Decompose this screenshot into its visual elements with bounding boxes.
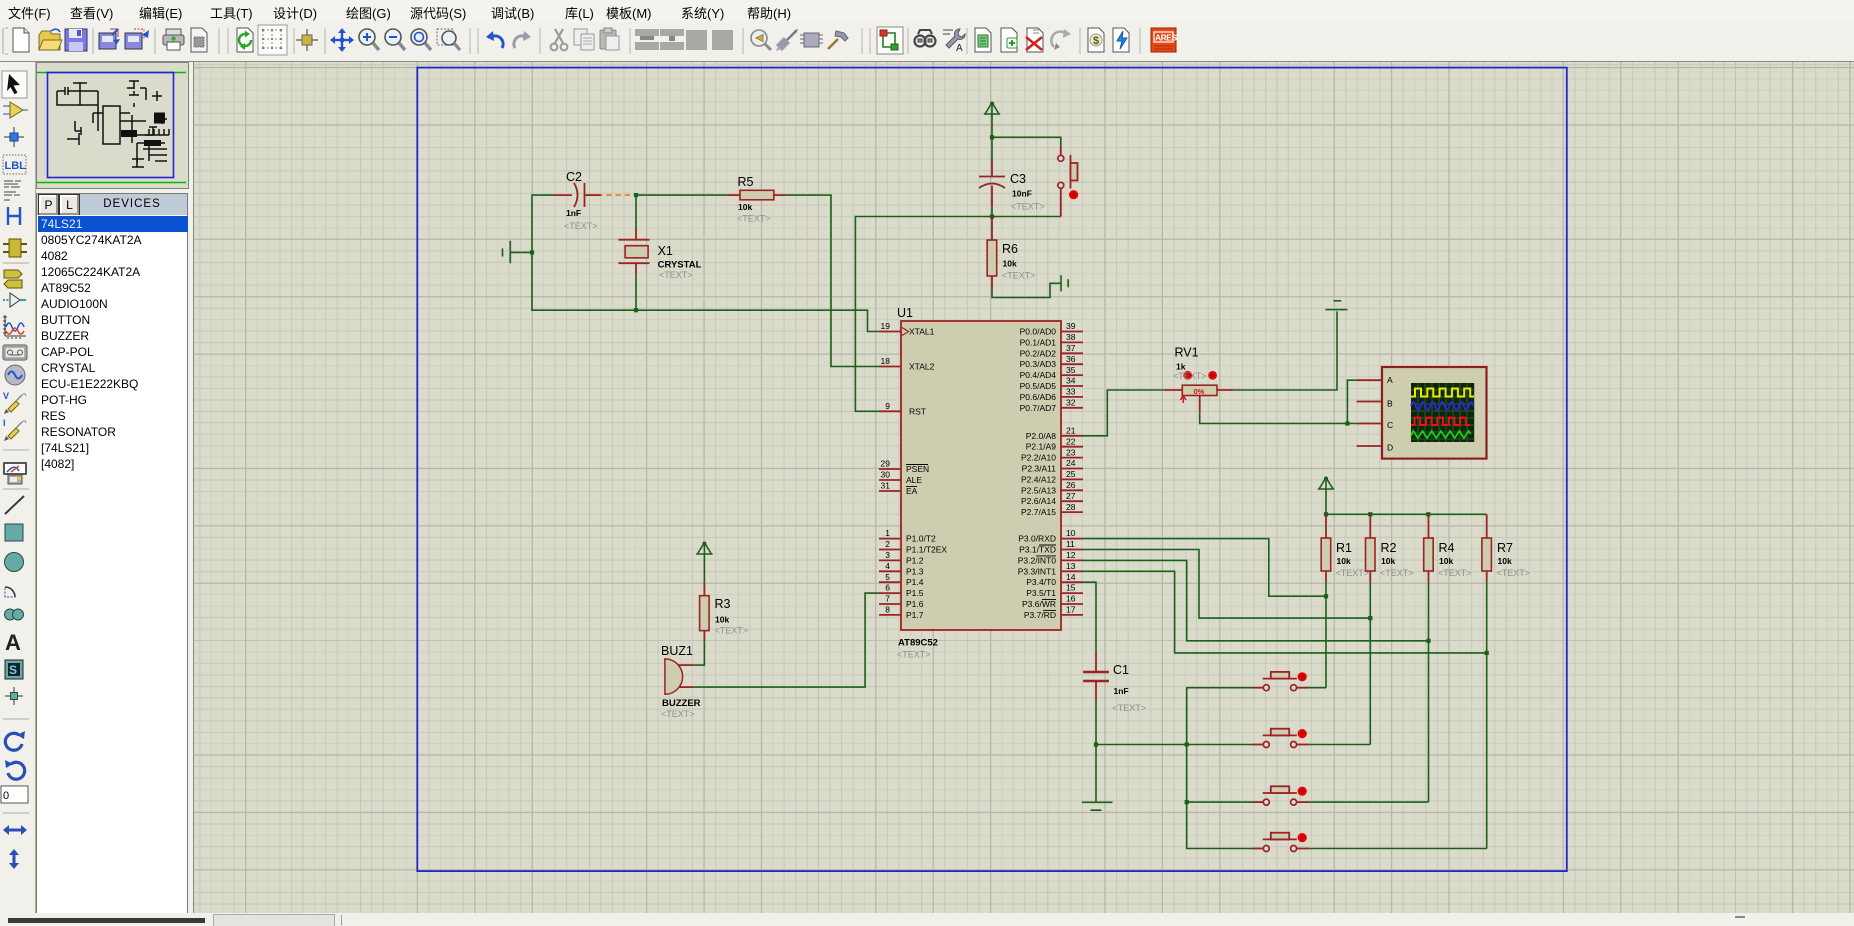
wire button2 right (1309, 744, 1370, 746)
svg-text:<TEXT>: <TEXT> (1002, 271, 1036, 281)
wire R4 bottom column (1428, 582, 1430, 802)
wire P3.2 to R4/button3 (1083, 560, 1429, 640)
resistor R7 (1482, 514, 1530, 582)
icon: new document (13, 28, 29, 52)
svg-text:<TEXT>: <TEXT> (659, 270, 693, 280)
left tool strip (0, 61, 36, 913)
icon: cut (551, 29, 568, 50)
capacitor C3 (979, 159, 1045, 212)
svg-text:XTAL2: XTAL2 (909, 362, 935, 372)
cursor arrow icon (7, 74, 20, 94)
svg-text:<TEXT>: <TEXT> (1011, 202, 1045, 212)
svg-text:AT89C52: AT89C52 (898, 638, 938, 649)
2D circle icon (5, 553, 24, 572)
svg-text:R7: R7 (1497, 541, 1513, 555)
wire C3 bottom to rail (991, 206, 993, 217)
icon: mark output area (191, 28, 207, 52)
ground (C1) (1082, 802, 1113, 810)
svg-text:P3.0/RXD: P3.0/RXD (1018, 534, 1056, 544)
svg-text:R5: R5 (738, 175, 754, 189)
P button (38, 194, 59, 216)
icon: paste (600, 28, 619, 50)
power symbol (ladder) (1318, 477, 1334, 490)
icon: zoom in (359, 29, 379, 50)
pins P1.0-P1.7 (1-8) (879, 539, 901, 615)
microcontroller U1 AT89C52 (879, 306, 1083, 660)
power symbol (R3) (696, 542, 712, 555)
svg-text:35: 35 (1066, 365, 1076, 375)
pin ALE 30 (879, 479, 901, 481)
icon: pan (330, 28, 354, 52)
icon: zoom all (411, 29, 431, 50)
svg-text:P1.0/T2: P1.0/T2 (906, 534, 936, 544)
ground (crystal section) (503, 241, 533, 263)
svg-text:S: S (9, 663, 17, 677)
icon: block rotate (686, 30, 707, 50)
svg-text:R4: R4 (1439, 541, 1455, 555)
svg-text:C1: C1 (1113, 663, 1129, 677)
capacitor C2 (554, 170, 602, 231)
icon: new sheet (1001, 28, 1017, 52)
svg-text:R3: R3 (715, 597, 731, 611)
svg-text:BUZ1: BUZ1 (661, 644, 693, 658)
svg-text:<TEXT>: <TEXT> (1113, 703, 1147, 713)
overview window (36, 62, 189, 189)
pin EA 31 (879, 490, 901, 492)
svg-text:A: A (956, 43, 963, 54)
svg-text:I: I (3, 418, 6, 428)
push button 4 (1253, 833, 1309, 852)
icon: property assign (943, 29, 965, 54)
svg-text:6: 6 (885, 583, 890, 593)
overlines TXD INT0 WR RD (1036, 545, 1056, 610)
bus mode icon (8, 207, 20, 225)
svg-text:P3.5/T1: P3.5/T1 (1026, 588, 1056, 598)
icon: export (125, 29, 149, 49)
svg-text:37: 37 (1066, 343, 1076, 353)
svg-text:15: 15 (1066, 583, 1076, 593)
icon: ARES (1151, 28, 1177, 52)
2D box icon (5, 524, 23, 541)
icon: block move (660, 29, 684, 50)
svg-text:17: 17 (1066, 605, 1076, 615)
junction dot mode icon (4, 127, 24, 147)
right pin names (1018, 327, 1057, 620)
svg-text:13: 13 (1066, 561, 1076, 571)
waveform channel A (yellow square) (1411, 389, 1474, 397)
oscilloscope (1357, 367, 1487, 459)
svg-text:<TEXT>: <TEXT> (1380, 568, 1414, 578)
svg-text:27: 27 (1066, 491, 1076, 501)
svg-text:<TEXT>: <TEXT> (1438, 568, 1472, 578)
svg-text:<TEXT>: <TEXT> (715, 626, 749, 636)
node junctions ladder rail (1324, 512, 1328, 516)
text script mode icon (4, 181, 21, 200)
icon: block delete (712, 30, 733, 50)
svg-text:P3.2/INT0: P3.2/INT0 (1018, 555, 1057, 565)
svg-text:16: 16 (1066, 594, 1076, 604)
icon: design explorer (975, 28, 991, 52)
svg-text:R1: R1 (1336, 541, 1352, 555)
svg-text:21: 21 (1066, 426, 1076, 436)
svg-text:29: 29 (881, 459, 891, 469)
wire R3 to buzzer pin1 (694, 642, 705, 665)
icon: goto pin (776, 29, 798, 51)
component mode icon (3, 102, 28, 118)
wire button4 right (1309, 848, 1487, 850)
svg-text:P0.1/AD1: P0.1/AD1 (1020, 337, 1057, 347)
node junction C3/R6 rail (990, 214, 994, 218)
svg-text:P3.1/TXD: P3.1/TXD (1019, 545, 1056, 555)
wire R2 bottom column (1369, 582, 1371, 745)
svg-text:7: 7 (885, 594, 890, 604)
wire RV1 wiper to scope (1200, 413, 1357, 424)
resistor R4 (1424, 514, 1472, 582)
wire button3 right (1309, 801, 1429, 803)
icon: origin (296, 29, 318, 51)
icon: import (99, 29, 120, 49)
wire button left column (1187, 688, 1253, 849)
svg-text:14: 14 (1066, 572, 1076, 582)
svg-text:23: 23 (1066, 448, 1076, 458)
svg-text:10k: 10k (1337, 556, 1351, 566)
schematic canvas (0, 61, 1854, 62)
icon: zoom out (385, 29, 405, 50)
wire R5 to XTAL2 (786, 195, 879, 366)
wire C1 to ground (1095, 700, 1097, 802)
svg-text:39: 39 (1066, 321, 1076, 331)
svg-text:30: 30 (881, 470, 891, 480)
pins P3.0-P3.7 (10-17) (1061, 539, 1083, 615)
graph mode icon (3, 315, 26, 338)
svg-text:4: 4 (885, 561, 890, 571)
svg-text:PSEN: PSEN (906, 464, 929, 474)
icon: BOM (1088, 28, 1104, 52)
DEVICES title (79, 194, 185, 214)
svg-text:32: 32 (1066, 398, 1076, 408)
svg-text:P0.7/AD7: P0.7/AD7 (1020, 403, 1057, 413)
svg-text:P1.6: P1.6 (906, 599, 924, 609)
2D line icon (5, 496, 24, 514)
waveform channel D (green zigzag) (1411, 431, 1471, 438)
icon: block copy (635, 29, 659, 50)
resistor R5 (727, 175, 786, 224)
svg-text:P0.2/AD2: P0.2/AD2 (1020, 348, 1057, 358)
svg-text:P2.1/A9: P2.1/A9 (1026, 442, 1057, 452)
pin RST 9 (879, 410, 901, 412)
icon: chip (800, 33, 823, 47)
svg-text:XTAL1: XTAL1 (909, 327, 935, 337)
svg-text:P0.4/AD4: P0.4/AD4 (1020, 370, 1057, 380)
svg-text:RST: RST (909, 407, 926, 417)
crystal X1 (618, 228, 701, 280)
svg-text:V: V (3, 391, 9, 401)
voltage probe mode icon (3, 391, 26, 414)
wire RST rail (855, 217, 1060, 412)
svg-text:28: 28 (1066, 502, 1076, 512)
devices header (36, 193, 188, 217)
svg-text:12: 12 (1066, 550, 1076, 560)
wire power to C3 (991, 103, 993, 160)
svg-text:A: A (1387, 375, 1393, 385)
ground (R6) (1061, 275, 1068, 291)
svg-text:10k: 10k (1381, 556, 1395, 566)
2D symbol icon (5, 660, 23, 679)
svg-text:2: 2 (885, 539, 890, 549)
node junction X1 bottom rail (634, 308, 638, 312)
power symbol (C3 rail) (984, 102, 1000, 115)
overlines PSEN EA (906, 465, 928, 487)
node junction R1/P3.0 (1324, 594, 1328, 598)
icon: goto sheet (1051, 29, 1071, 50)
svg-text:0: 0 (3, 790, 9, 802)
wire X1 bottom (635, 274, 637, 310)
svg-text:ARES: ARES (1155, 33, 1177, 43)
node junction C2/X1/R5 (634, 193, 638, 197)
icon: grid (pressed) (258, 25, 287, 55)
svg-text:25: 25 (1066, 469, 1076, 479)
svg-text:A: A (5, 630, 21, 655)
svg-text:C: C (1387, 420, 1393, 430)
svg-text:P2.6/A14: P2.6/A14 (1021, 496, 1056, 506)
svg-text:33: 33 (1066, 387, 1076, 397)
svg-text:26: 26 (1066, 480, 1076, 490)
resistor R1 (1321, 514, 1369, 582)
left pin names (906, 327, 947, 620)
svg-text:P2.5/A13: P2.5/A13 (1021, 485, 1056, 495)
push button 3 (1253, 786, 1309, 805)
svg-text:22: 22 (1066, 437, 1076, 447)
svg-text:P2.2/A10: P2.2/A10 (1021, 453, 1056, 463)
svg-text:BUZZER: BUZZER (662, 698, 701, 709)
svg-text:P1.4: P1.4 (906, 577, 924, 587)
svg-text:RV1: RV1 (1175, 346, 1199, 360)
wire RV1 right to inverted ground (1234, 311, 1337, 390)
wire button1 right (1309, 687, 1326, 689)
rotate clockwise icon (5, 731, 25, 750)
svg-text:C2: C2 (566, 170, 582, 184)
svg-text:10k: 10k (738, 202, 752, 212)
svg-text:P0.5/AD5: P0.5/AD5 (1020, 381, 1057, 391)
status bar (0, 913, 1854, 925)
2D marker icon (5, 687, 23, 705)
node junction left column/button3 (1185, 800, 1189, 804)
icon: goto zoom (751, 30, 771, 50)
svg-text:<TEXT>: <TEXT> (1173, 371, 1207, 381)
device list (36, 215, 188, 914)
svg-text:10k: 10k (1003, 259, 1017, 269)
svg-text:P0.0/AD0: P0.0/AD0 (1020, 327, 1057, 337)
icon: ERC (1113, 28, 1129, 52)
device pin mode icon (3, 293, 26, 307)
svg-text:P1.7: P1.7 (906, 610, 924, 620)
svg-text:P3.3/INT1: P3.3/INT1 (1018, 566, 1057, 576)
rotation angle box (1, 786, 28, 803)
icon: remove sheet (1026, 28, 1043, 52)
svg-text:P1.5: P1.5 (906, 588, 924, 598)
node junction R7/P3.3 (1485, 651, 1489, 655)
svg-text:R2: R2 (1381, 541, 1397, 555)
wire R7 bottom column (1486, 582, 1488, 849)
wire C2 net (532, 195, 879, 331)
waveform channel B (blue sine) (1411, 402, 1473, 410)
pins P2.0-P2.7 (21-28) (1061, 436, 1083, 512)
node junction scope A/C branch (1345, 421, 1349, 425)
svg-text:P1.1/T2EX: P1.1/T2EX (906, 545, 947, 555)
node junction R4/P3.2 (1426, 639, 1430, 643)
node junction R2/P3.1 (1368, 616, 1372, 620)
svg-text:19: 19 (881, 321, 891, 331)
wire R1 bottom column (1325, 582, 1327, 688)
node junction left column/ground rail (1185, 742, 1189, 746)
svg-text:10k: 10k (1439, 556, 1453, 566)
wire C2 to junction (dashed highlight) (588, 194, 633, 196)
svg-text:31: 31 (881, 481, 891, 491)
svg-text:<TEXT>: <TEXT> (661, 709, 695, 719)
wire P3.3 to R7/button4 (1083, 571, 1487, 653)
wire R6 to ground (992, 283, 1061, 297)
icon: zoom area (437, 29, 460, 50)
icon: redo (514, 31, 531, 48)
push button reset switch (1058, 145, 1078, 216)
right pin numbers (1066, 321, 1076, 615)
capacitor C1 (1083, 651, 1146, 713)
resistor R6 (987, 217, 1035, 291)
potentiometer RV1 (1165, 346, 1234, 413)
overview mini circuit (57, 81, 169, 167)
icon: open folder (39, 29, 62, 50)
wire button3 left (1187, 801, 1253, 803)
svg-text:1k: 1k (1176, 362, 1186, 372)
icon: print (163, 29, 184, 50)
svg-text:U1: U1 (897, 306, 913, 320)
mirror vertical icon (9, 849, 19, 869)
svg-text:EA: EA (906, 486, 918, 496)
icon: search (915, 30, 936, 47)
svg-text:10k: 10k (715, 615, 729, 625)
svg-text:$: $ (1093, 35, 1099, 47)
buzzer BUZ1 (661, 644, 701, 719)
svg-text:<TEXT>: <TEXT> (737, 214, 771, 224)
overview blue sheet frame (48, 73, 174, 178)
svg-text:C3: C3 (1010, 172, 1026, 186)
resistor R2 (1366, 514, 1414, 582)
svg-text:1nF: 1nF (566, 208, 581, 218)
svg-text:P2.7/A15: P2.7/A15 (1021, 507, 1056, 517)
pin XTAL1 19 (879, 328, 909, 336)
resistor R3 (700, 582, 748, 642)
pins P0.0-P0.7 (39-32) (1061, 332, 1083, 408)
svg-text:P0.3/AD3: P0.3/AD3 (1020, 359, 1057, 369)
wire buzzer pin2 to P1.5 (694, 593, 879, 687)
wire ladder power rail (1326, 478, 1487, 515)
svg-text:X1: X1 (658, 244, 673, 258)
icon: copy (574, 29, 594, 50)
node junction power/C3/switch rail (990, 135, 994, 139)
svg-text:D: D (1387, 443, 1393, 453)
wire P2.0 to RV1 (1083, 390, 1165, 436)
L button (59, 194, 80, 216)
wire P3.1 to R2/button2 (1083, 550, 1370, 619)
svg-text:P2.4/A12: P2.4/A12 (1021, 474, 1056, 484)
svg-text:24: 24 (1066, 458, 1076, 468)
svg-text:<TEXT>: <TEXT> (1497, 568, 1531, 578)
ground (inverted, above RV1 wire) (1325, 301, 1347, 310)
svg-text:11: 11 (1066, 539, 1075, 549)
svg-text:38: 38 (1066, 332, 1076, 342)
node junction ground/C2 left (530, 250, 534, 254)
wire power to R3 (703, 543, 705, 583)
icon: wire autoroute (877, 27, 903, 54)
selection mode button (pressed) (2, 71, 27, 98)
wire ground rail to button row2 (1096, 744, 1253, 746)
svg-text:10: 10 (1066, 528, 1076, 538)
node junction C1/ground rail (1094, 742, 1098, 746)
icon: save disk (65, 29, 87, 51)
sheet border (417, 68, 1567, 872)
svg-text:<TEXT>: <TEXT> (897, 650, 931, 660)
waveform channel C (red square) (1411, 418, 1470, 425)
svg-text:34: 34 (1066, 376, 1076, 386)
svg-text:LBL: LBL (5, 160, 27, 172)
icon: hammer (828, 31, 848, 49)
svg-text:ALE: ALE (906, 475, 922, 485)
generator mode icon (5, 365, 25, 385)
svg-text:10nF: 10nF (1012, 189, 1032, 199)
svg-text:P3.7/RD: P3.7/RD (1024, 610, 1056, 620)
pin PSEN 29 (879, 468, 901, 470)
pin XTAL2 18 (879, 366, 901, 368)
svg-text:5: 5 (885, 572, 890, 582)
svg-text:B: B (1387, 398, 1393, 408)
wire C3 rail to switch (992, 137, 1061, 145)
terminal mode icon (4, 270, 22, 288)
push button 2 (1253, 729, 1309, 748)
svg-text:P1.3: P1.3 (906, 566, 924, 576)
svg-text:R6: R6 (1002, 242, 1018, 256)
left pin numbers (881, 321, 891, 615)
svg-text:0%: 0% (1194, 387, 1205, 396)
icon: undo (486, 31, 503, 48)
subcircuit mode icon (3, 239, 27, 257)
2D arc icon (5, 587, 15, 597)
mirror horizontal icon (3, 825, 27, 835)
wire junction to R5 (636, 194, 727, 196)
svg-text:10k: 10k (1498, 556, 1512, 566)
svg-text:P3.6/WR: P3.6/WR (1022, 599, 1056, 609)
svg-text:CRYSTAL: CRYSTAL (658, 260, 702, 271)
tape recorder mode icon (3, 345, 27, 360)
overview green margin lines (37, 72, 186, 74)
wire scope A branch (1347, 380, 1356, 423)
svg-text:P0.6/AD6: P0.6/AD6 (1020, 392, 1057, 402)
svg-text:3: 3 (885, 550, 890, 560)
svg-text:36: 36 (1066, 354, 1076, 364)
svg-text:<TEXT>: <TEXT> (564, 221, 598, 231)
rotate anticlockwise icon (5, 760, 25, 779)
svg-text:1nF: 1nF (1114, 686, 1129, 696)
svg-text:P1.2: P1.2 (906, 555, 924, 565)
svg-text:<TEXT>: <TEXT> (1336, 568, 1370, 578)
current probe mode icon (3, 418, 26, 441)
svg-text:8: 8 (885, 605, 890, 615)
svg-text:P3.4/T0: P3.4/T0 (1026, 577, 1056, 587)
wire P3.0 to R1/button1 (1083, 539, 1326, 597)
wire X1 top (635, 195, 637, 228)
virtual instrument mode icon (3, 462, 27, 484)
menu bar (0, 0, 1854, 22)
toolbar grip (3, 28, 8, 54)
